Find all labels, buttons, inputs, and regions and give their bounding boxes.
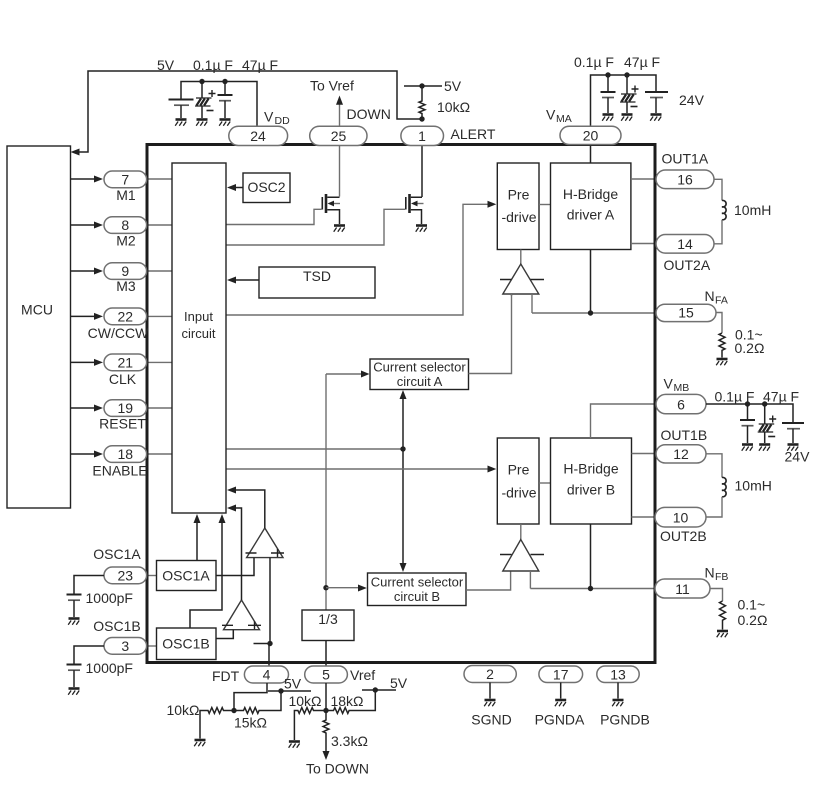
svg-text:Vref: Vref [350,667,375,683]
ground (24V battery VMB) [787,445,798,451]
svg-text:M2: M2 [116,233,136,249]
wire pin 12 to inductor B [706,454,722,478]
svg-text:circuit: circuit [182,326,216,341]
arrow MCU to ENABLE [71,451,104,458]
svg-text:H-Bridge: H-Bridge [563,461,618,477]
svg-text:DOWN: DOWN [347,106,391,122]
ground (Q1 source) [334,226,345,232]
label VDD [264,109,290,128]
svg-text:Input: Input [184,309,213,324]
svg-text:DD: DD [275,115,291,127]
svg-text:10mH: 10mH [735,478,772,494]
svg-text:19: 19 [118,400,134,416]
wire Pre-drive B to H-bridge B [539,482,551,484]
ground (10k Vref) [289,742,300,748]
wire FDT node down to pin 4 [268,644,270,667]
svg-text:0.2Ω: 0.2Ω [735,340,765,356]
arrow Vref/3 into current selector B [326,585,367,592]
arrow MCU to CLK [71,359,104,366]
block current selector circuit A [370,359,469,390]
svg-text:RESET: RESET [99,416,146,432]
wire pin 22 to input circuit [147,315,172,317]
wire NFB sense line to pin 11 [530,588,655,590]
svg-text:OUT1B: OUT1B [661,427,708,443]
wire 5V stub at ALERT pull-up [404,85,442,87]
svg-text:15: 15 [678,305,694,321]
svg-text:1000pF: 1000pF [86,590,133,606]
svg-text:47µ F: 47µ F [242,57,278,73]
wire comparator B positive input to NFB line [529,571,531,589]
ground (10k FDT) [194,740,205,746]
svg-text:5V: 5V [444,78,462,94]
wire H-bridge B low side to NFB [590,524,592,589]
wire pin 20 into H-bridge A [590,146,592,163]
pin 15 oval [656,304,716,321]
ground (sense resistor A) [716,359,727,365]
svg-text:circuit B: circuit B [394,589,440,604]
svg-text:0.1µ F: 0.1µ F [193,57,233,73]
node dot 5V FDT [278,688,283,693]
pin 2 oval [464,666,516,683]
svg-text:M3: M3 [116,278,136,294]
svg-text:23: 23 [118,568,134,584]
svg-text:10kΩ: 10kΩ [166,702,199,718]
svg-text:18: 18 [118,446,134,462]
svg-text:20: 20 [583,128,599,144]
ground (0.1uF VMB) [742,445,753,451]
svg-text:24: 24 [250,128,266,144]
svg-text:H-Bridge: H-Bridge [563,186,618,202]
label NFB [705,565,729,584]
arrow OSC2 to input circuit [227,184,243,191]
node dot VMB rail 2 [762,401,767,406]
svg-text:N: N [705,288,715,304]
node dot FDT divider [231,708,236,713]
pin 9 oval [104,263,147,280]
svg-text:driver A: driver A [567,207,615,223]
ground (5V battery) [175,120,186,126]
svg-text:16: 16 [677,172,693,188]
node junction dot VDD rail right [222,79,227,84]
wire Vref/3 distribution vertical [325,374,327,610]
wire Pre-drive A to H-bridge A [539,204,551,206]
svg-text:18kΩ: 18kΩ [330,693,363,709]
svg-text:12: 12 [673,446,689,462]
capacitor 1000pF (OSC1A) [67,595,82,618]
wire input circuit to Q2 gate [226,209,405,245]
svg-text:FB: FB [715,571,728,583]
wire VMB into H-bridge B [591,404,657,438]
pin 5 oval [305,666,348,683]
svg-text:10kΩ: 10kΩ [437,99,470,115]
svg-text:1/3: 1/3 [318,611,338,627]
pin 20 oval [560,126,621,144]
battery 5V source symbol [169,100,194,119]
ground (1000pF OSC1A) [68,619,79,625]
ground (PGNDA) [555,700,566,706]
svg-text:V: V [664,376,674,392]
svg-text:10kΩ: 10kΩ [288,693,321,709]
svg-text:17: 17 [553,667,569,683]
block OSC1B [157,628,217,660]
svg-text:FA: FA [715,295,728,307]
svg-text:SGND: SGND [471,712,511,728]
svg-text:5V: 5V [390,675,408,691]
ground (47uF VMA) [621,115,632,121]
svg-text:-drive: -drive [501,485,536,501]
svg-text:driver B: driver B [567,482,615,498]
resistor 15k [234,691,281,713]
arrow comparator OSC1A output to input circuit [227,487,265,529]
pin 24 oval [229,126,288,145]
svg-text:0.1~: 0.1~ [738,597,766,613]
wire H-bridge B to pin 12 [632,453,657,455]
node dot VMA rail 2 [624,72,629,77]
wire pin 19 to input circuit [147,407,172,409]
svg-text:To DOWN: To DOWN [306,761,369,777]
wire pin 2 to ground [489,683,491,699]
wire ALERT net from pin 1 to MCU [71,71,423,156]
pin 13 oval [597,666,639,683]
resistor 10k FDT left [200,708,234,739]
svg-text:MA: MA [556,113,572,125]
svg-text:M1: M1 [116,187,136,203]
pin 25 oval [310,126,367,145]
wire pin 18 to input circuit [147,453,172,455]
ground (47uF VMB) [759,445,770,451]
node dot 5V stub [419,83,424,88]
resistor 10k ALERT pull-up [419,86,425,119]
node dot Vref/3 branch [323,585,328,590]
svg-text:Current selector: Current selector [373,360,466,375]
wire pin 23 to OSC1A block [147,575,157,577]
block 1/3 divider [302,610,354,641]
block Pre-drive A [497,163,539,250]
svg-text:24V: 24V [679,92,705,108]
wire comparator OSC1A plus input to FDT node [269,558,271,644]
resistor 0.1-0.2 ohm A [719,333,725,358]
label VMB [664,376,690,395]
arrow MCU to M1 [71,176,104,183]
arrow MCU to CW/CCW [71,313,104,320]
wire pin 1 down to MOSFET Q2 drain [421,146,423,197]
pin 18 oval [104,446,147,463]
svg-text:ENABLE: ENABLE [92,463,147,479]
wire 5V stub (FDT) [268,690,311,692]
block TSD [259,267,375,298]
svg-text:PGNDA: PGNDA [535,712,585,728]
svg-text:13: 13 [610,667,626,683]
svg-text:0.2Ω: 0.2Ω [738,612,768,628]
node dot FDT junction [267,641,272,646]
svg-text:24V: 24V [785,449,811,465]
wire VMA rail to pin 20 [591,75,657,127]
capacitor electrolytic 47uF VMB [758,404,777,443]
pin 19 oval [104,400,147,417]
svg-text:3: 3 [121,638,129,654]
pin 21 oval [104,354,147,371]
svg-text:Pre: Pre [508,462,530,478]
ground (sense resistor B) [717,631,728,637]
arrow OSC1B block up into input circuit [190,514,226,628]
ground (Q2 source) [416,226,427,232]
block input circuit [172,163,226,513]
svg-text:5: 5 [322,667,330,683]
node dot ALERT junction [419,116,424,121]
wire pin 3 to 1000pF [74,646,104,665]
wire current selector A/B select line [400,390,407,572]
wire inductor B to pin 10 [706,497,722,517]
wire pin 7 to input circuit [147,178,172,180]
label VMA [546,107,572,126]
wire pin 8 to input circuit [147,224,172,226]
wire pin 17 to ground [560,683,562,699]
wire pin 13 to ground [617,683,619,699]
ground (0.1uF VMA) [602,115,613,121]
node dot Vref [323,708,328,713]
svg-text:6: 6 [677,397,685,413]
ground (PGNDB) [612,700,623,706]
wire H-bridge A to pin 16 [631,178,656,180]
wire H-bridge B to pin 10 [632,516,657,518]
svg-text:PGNDB: PGNDB [600,712,650,728]
pin 10 oval [655,507,706,527]
svg-text:Current selector: Current selector [371,575,464,590]
arrow MCU to M3 [71,268,104,275]
svg-text:1000pF: 1000pF [86,660,133,676]
block H-Bridge driver B [551,438,632,524]
node dot selector feed [400,446,405,451]
svg-text:To Vref: To Vref [310,78,354,94]
wire OSC1B block to comparator minus input [216,630,233,639]
svg-text:47µ F: 47µ F [624,54,660,70]
pin 17 oval [539,666,583,683]
wire input circuit to Pre-drive A [226,201,496,315]
wire comparator OSC1B plus input joins FDT node [254,643,271,645]
svg-text:ALERT: ALERT [451,126,496,142]
svg-text:15kΩ: 15kΩ [234,715,267,731]
pin 7 oval [104,171,147,188]
node dot VMA rail 1 [605,72,610,77]
block OSC1A [157,561,217,591]
wire input circuit to Q1 gate [226,209,322,224]
svg-text:47µ F: 47µ F [763,389,799,405]
wire input circuit to current selectors [226,448,403,450]
wire comparator A positive input to NFA line [531,294,533,313]
svg-text:-drive: -drive [501,209,536,225]
svg-text:circuit A: circuit A [397,374,443,389]
wire VDD supply rail to pin 24 [181,82,257,127]
svg-text:OSC1B: OSC1B [93,618,140,634]
wire VMB rail [706,404,793,423]
capacitor electrolytic 47uF VMA [620,75,639,113]
arrow TSD to input circuit [227,277,259,284]
block current selector circuit B [368,573,467,606]
svg-text:MB: MB [674,382,690,394]
pin 8 oval [104,217,147,234]
svg-text:OSC1A: OSC1A [93,546,141,562]
svg-text:3.3kΩ: 3.3kΩ [331,733,368,749]
svg-text:11: 11 [675,581,690,597]
wire pin 3 to OSC1B block [147,645,157,647]
svg-text:OUT1A: OUT1A [662,151,709,167]
arrow comparator OSC1B output to input circuit [227,505,242,601]
capacitor 0.1uF VMA [601,75,616,113]
battery 24V source VMB [782,423,804,443]
ground (1000pF OSC1B) [68,689,79,695]
resistor 3.3k with arrow to DOWN [323,711,330,761]
svg-text:10mH: 10mH [734,202,771,218]
wire DOWN to Vref arrow [336,96,343,128]
resistor 10k Vref left [294,708,326,740]
comparator OSC1A [246,528,285,558]
svg-text:OUT2A: OUT2A [664,257,711,273]
battery 24V source VMA [645,92,668,113]
arrow OSC1A block up into input circuit [194,514,201,561]
svg-text:5V: 5V [157,57,175,73]
wire H-bridge A to pin 14 [631,243,656,245]
svg-text:OSC1B: OSC1B [162,636,209,652]
svg-text:TSD: TSD [303,268,331,284]
pin 6 oval [656,394,706,413]
ground (0.1uF VDD cap) [196,120,207,126]
svg-text:22: 22 [118,309,134,325]
wire comparator A negative input (from selector A) [511,294,513,296]
svg-text:0.1µ F: 0.1µ F [574,54,614,70]
resistor 0.1-0.2 ohm B [720,601,726,630]
svg-text:2: 2 [486,666,494,682]
wire OSC1A block to comparator minus input [216,558,254,576]
svg-text:1: 1 [418,128,426,144]
svg-text:FDT: FDT [212,668,240,684]
svg-text:21: 21 [118,355,134,371]
capacitor 1000pF (OSC1B) [67,665,82,688]
wire pin 25 down to MOSFET Q1 drain [339,146,341,197]
svg-text:OUT2B: OUT2B [660,528,707,544]
pin 3 oval [104,638,147,655]
capacitor electrolytic 0.1uF VDD [195,82,216,119]
node dot NFB junction [588,586,593,591]
ground (SGND) [484,700,495,706]
wire NFA sense line to pin 15 [532,312,655,314]
wire pin 11 to sense resistor B [710,589,723,602]
svg-text:5V: 5V [284,676,302,692]
pin 1 oval [401,126,444,145]
wire selector B output to comparator B [466,572,511,591]
inductor 10mH A [722,200,726,219]
ground (47uF VDD cap) [219,120,230,126]
svg-text:V: V [264,109,274,125]
svg-text:10: 10 [673,510,689,526]
pin 16 oval [656,170,714,189]
svg-text:0.1µ F: 0.1µ F [715,389,755,405]
arrow MCU to RESET [71,405,104,412]
svg-text:7: 7 [121,172,129,188]
comparator OSC1B [222,600,261,630]
block H-Bridge driver A [551,163,631,250]
svg-text:Pre: Pre [508,187,530,203]
block OSC2 [243,173,290,203]
node dot 5V Vref [373,687,378,692]
MOSFET Q1 (DOWN output) [322,194,340,224]
arrow MCU to M2 [71,222,104,229]
block Pre-drive B [497,438,539,524]
comparator A (chopper) [500,250,544,295]
svg-text:8: 8 [121,217,129,233]
pin 11 oval [655,579,710,598]
wire input circuit to Pre-drive B [226,466,496,473]
arrow Vref/3 into current selector A [326,371,370,378]
MCU block [7,146,71,508]
node dot NFA junction [588,310,593,315]
comparator B (chopper) [500,524,544,571]
wire pin 5 to Vref node [325,683,327,711]
wire pin 9 to input circuit [147,270,172,272]
svg-text:CW/CCW: CW/CCW [88,325,149,341]
wire pin 21 to input circuit [147,361,172,363]
svg-text:OSC1A: OSC1A [162,568,210,584]
wire 5V stub (Vref) [362,689,396,691]
svg-text:V: V [546,107,556,123]
svg-text:OSC2: OSC2 [247,179,285,195]
pin 4 oval [244,666,288,683]
svg-text:4: 4 [263,667,271,683]
svg-text:MCU: MCU [21,302,53,318]
svg-text:14: 14 [677,236,693,252]
MOSFET Q2 (ALERT output) [406,194,424,224]
capacitor 0.1uF VMB [740,404,755,443]
wire H-bridge A low side to NFA [590,250,592,314]
pin 22 oval [104,308,147,325]
IC package outline [147,145,655,663]
capacitor 47uF VDD [218,82,233,119]
wire inductor A to pin 14 [714,220,722,244]
label NFA [705,288,728,307]
node junction dot VDD rail left [199,79,204,84]
inductor 10mH B [722,477,726,496]
ground (24V battery VMA) [650,115,661,121]
svg-text:25: 25 [331,128,347,144]
wire pin 23 to 1000pF [74,576,104,595]
node dot VMB rail 1 [745,401,750,406]
wire pin 4 to FDT divider [234,683,267,711]
wire selector A output to comparator A [469,294,512,374]
wire pin 16 to inductor A [714,179,722,200]
svg-text:CLK: CLK [109,371,137,387]
svg-text:9: 9 [121,263,129,279]
wire pin 15 to sense resistor A [716,313,722,334]
wire 1/3 to pin 5 [325,641,327,667]
pin 12 oval [656,445,706,463]
pin 14 oval [656,235,714,254]
pin 23 oval [104,567,147,584]
svg-text:N: N [705,565,715,581]
resistor 18k [326,690,375,713]
